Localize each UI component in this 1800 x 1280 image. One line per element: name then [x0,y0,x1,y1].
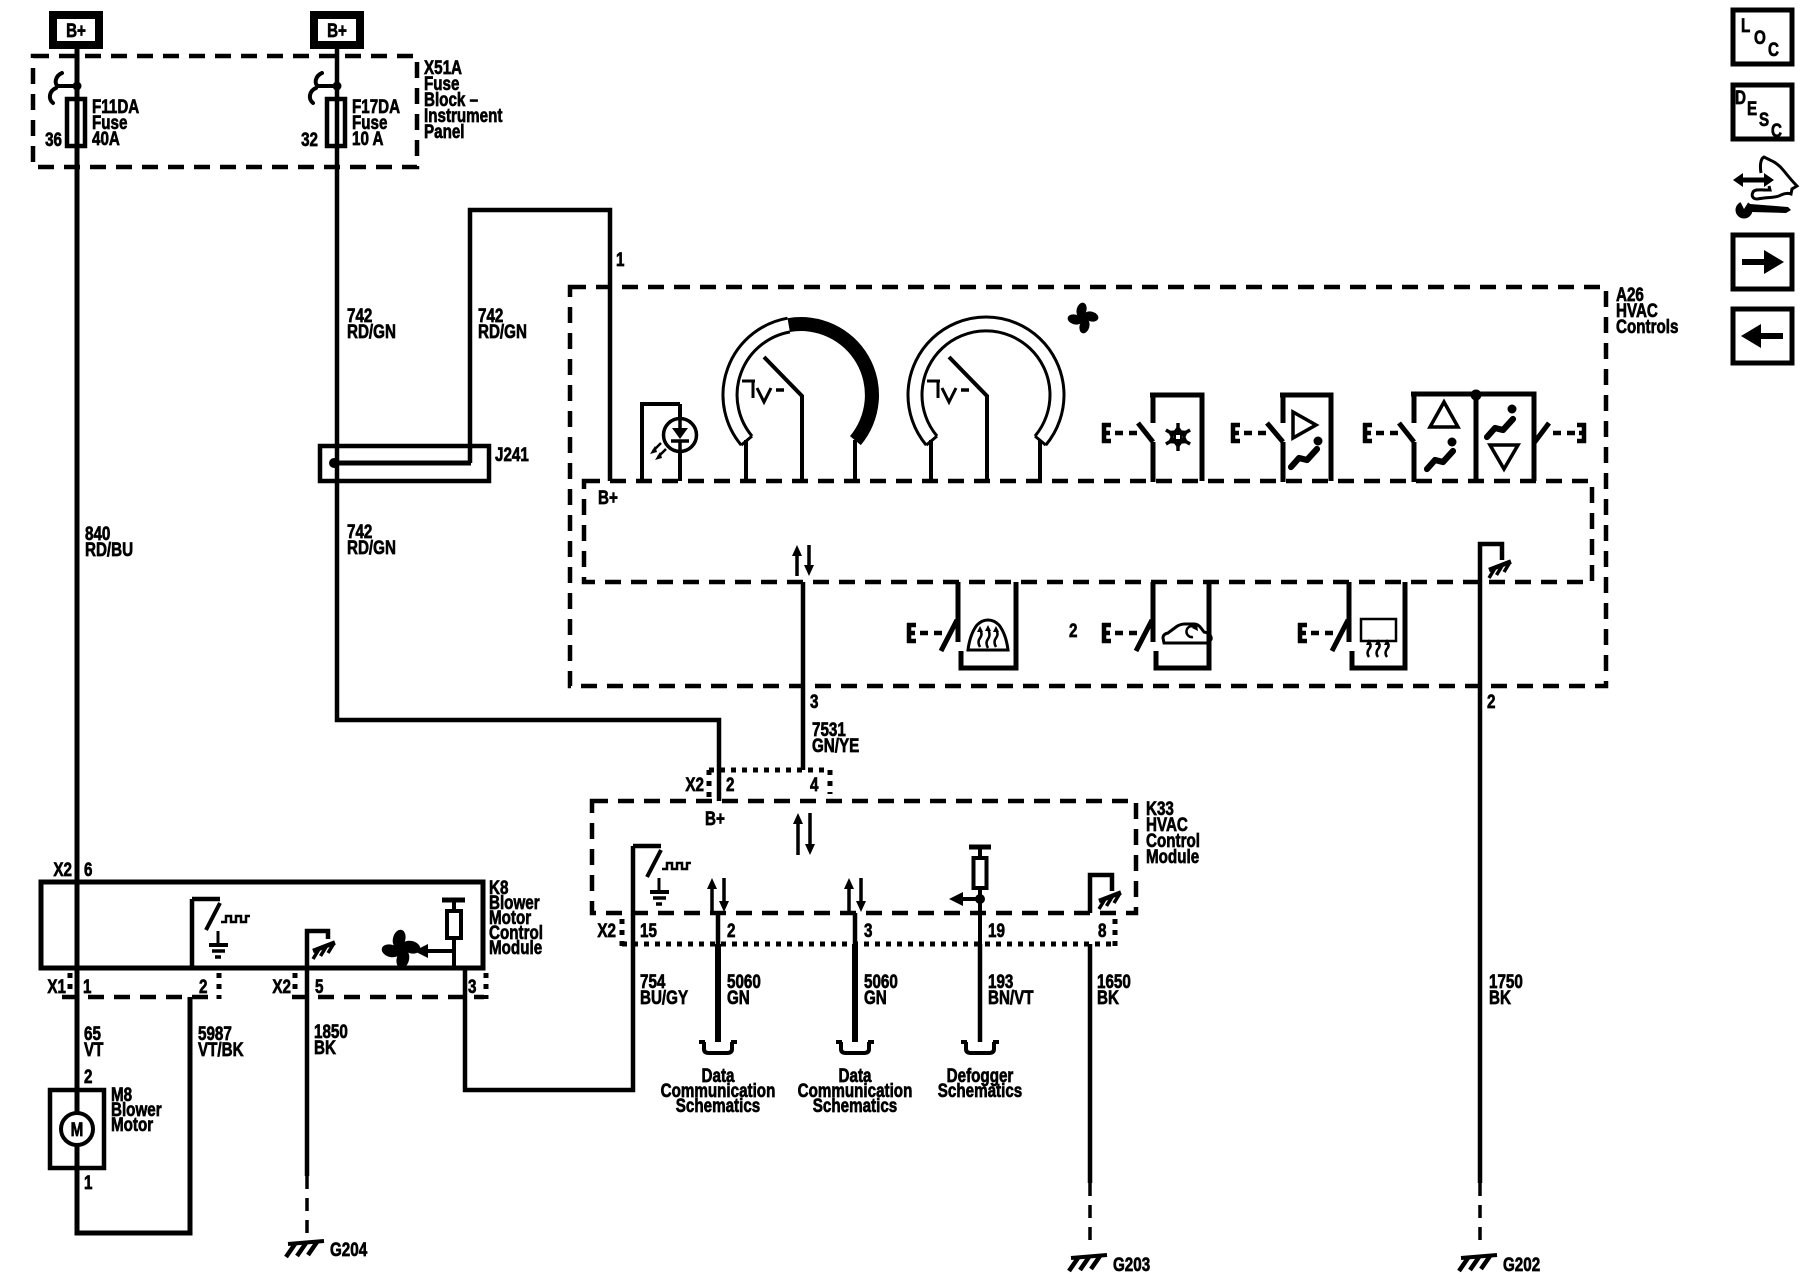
svg-text:C: C [1771,119,1782,141]
svg-text:BK: BK [1489,986,1511,1008]
svg-text:G202: G202 [1503,1253,1540,1275]
svg-text:2: 2 [199,975,207,997]
svg-text:Schematics: Schematics [813,1094,897,1116]
svg-text:GN: GN [864,986,887,1008]
svg-text:RD/GN: RD/GN [347,320,396,342]
svg-text:S: S [1759,108,1769,130]
svg-text:RD/GN: RD/GN [478,320,527,342]
svg-text:2: 2 [727,919,735,941]
svg-text:X2: X2 [685,773,704,795]
svg-text:4: 4 [810,773,819,795]
svg-text:2: 2 [84,1065,92,1087]
svg-text:GN/YE: GN/YE [812,734,859,756]
svg-text:C: C [1768,38,1779,60]
svg-text:1: 1 [84,1171,93,1193]
svg-text:J241: J241 [495,443,529,465]
svg-text:BK: BK [314,1036,336,1058]
svg-text:G204: G204 [330,1238,368,1260]
svg-text:X2: X2 [53,858,72,880]
svg-text:D: D [1735,86,1746,108]
svg-text:Schematics: Schematics [676,1094,760,1116]
svg-text:10 A: 10 A [352,127,384,149]
svg-text:3: 3 [810,690,818,712]
svg-text:Module: Module [489,936,542,958]
svg-text:Module: Module [1146,845,1199,867]
svg-text:32: 32 [301,128,318,150]
svg-text:3: 3 [864,919,872,941]
svg-text:3: 3 [468,975,476,997]
svg-text:B+: B+ [598,486,618,508]
svg-text:VT: VT [84,1038,104,1060]
svg-text:Panel: Panel [424,120,465,142]
svg-text:L: L [1741,14,1750,36]
svg-text:X2: X2 [272,975,291,997]
svg-text:M: M [71,1118,84,1140]
svg-text:GN: GN [727,986,750,1008]
svg-text:1: 1 [616,248,625,270]
svg-text:6: 6 [84,858,92,880]
svg-text:B+: B+ [705,807,725,829]
svg-text:8: 8 [1098,919,1107,941]
svg-text:19: 19 [988,919,1005,941]
svg-text:RD/GN: RD/GN [347,536,396,558]
svg-text:2: 2 [1487,690,1495,712]
svg-text:15: 15 [640,919,657,941]
svg-text:X1: X1 [47,975,66,997]
svg-text:E: E [1747,97,1757,119]
svg-text:Schematics: Schematics [938,1079,1022,1101]
svg-text:36: 36 [45,128,62,150]
svg-text:2: 2 [1069,619,1077,641]
svg-text:VT/BK: VT/BK [198,1038,244,1060]
svg-text:BU/GY: BU/GY [640,986,689,1008]
svg-text:RD/BU: RD/BU [85,538,133,560]
svg-text:40A: 40A [92,127,120,149]
svg-text:2: 2 [726,773,734,795]
svg-text:BK: BK [1097,986,1119,1008]
svg-text:B+: B+ [327,19,347,41]
svg-text:BN/VT: BN/VT [988,986,1034,1008]
svg-text:1: 1 [83,975,92,997]
svg-text:O: O [1754,26,1766,48]
svg-text:B+: B+ [66,19,86,41]
svg-text:5: 5 [315,975,324,997]
svg-text:Controls: Controls [1616,315,1678,337]
svg-text:G203: G203 [1113,1253,1150,1275]
svg-text:X2: X2 [597,919,616,941]
svg-text:Motor: Motor [111,1113,153,1135]
